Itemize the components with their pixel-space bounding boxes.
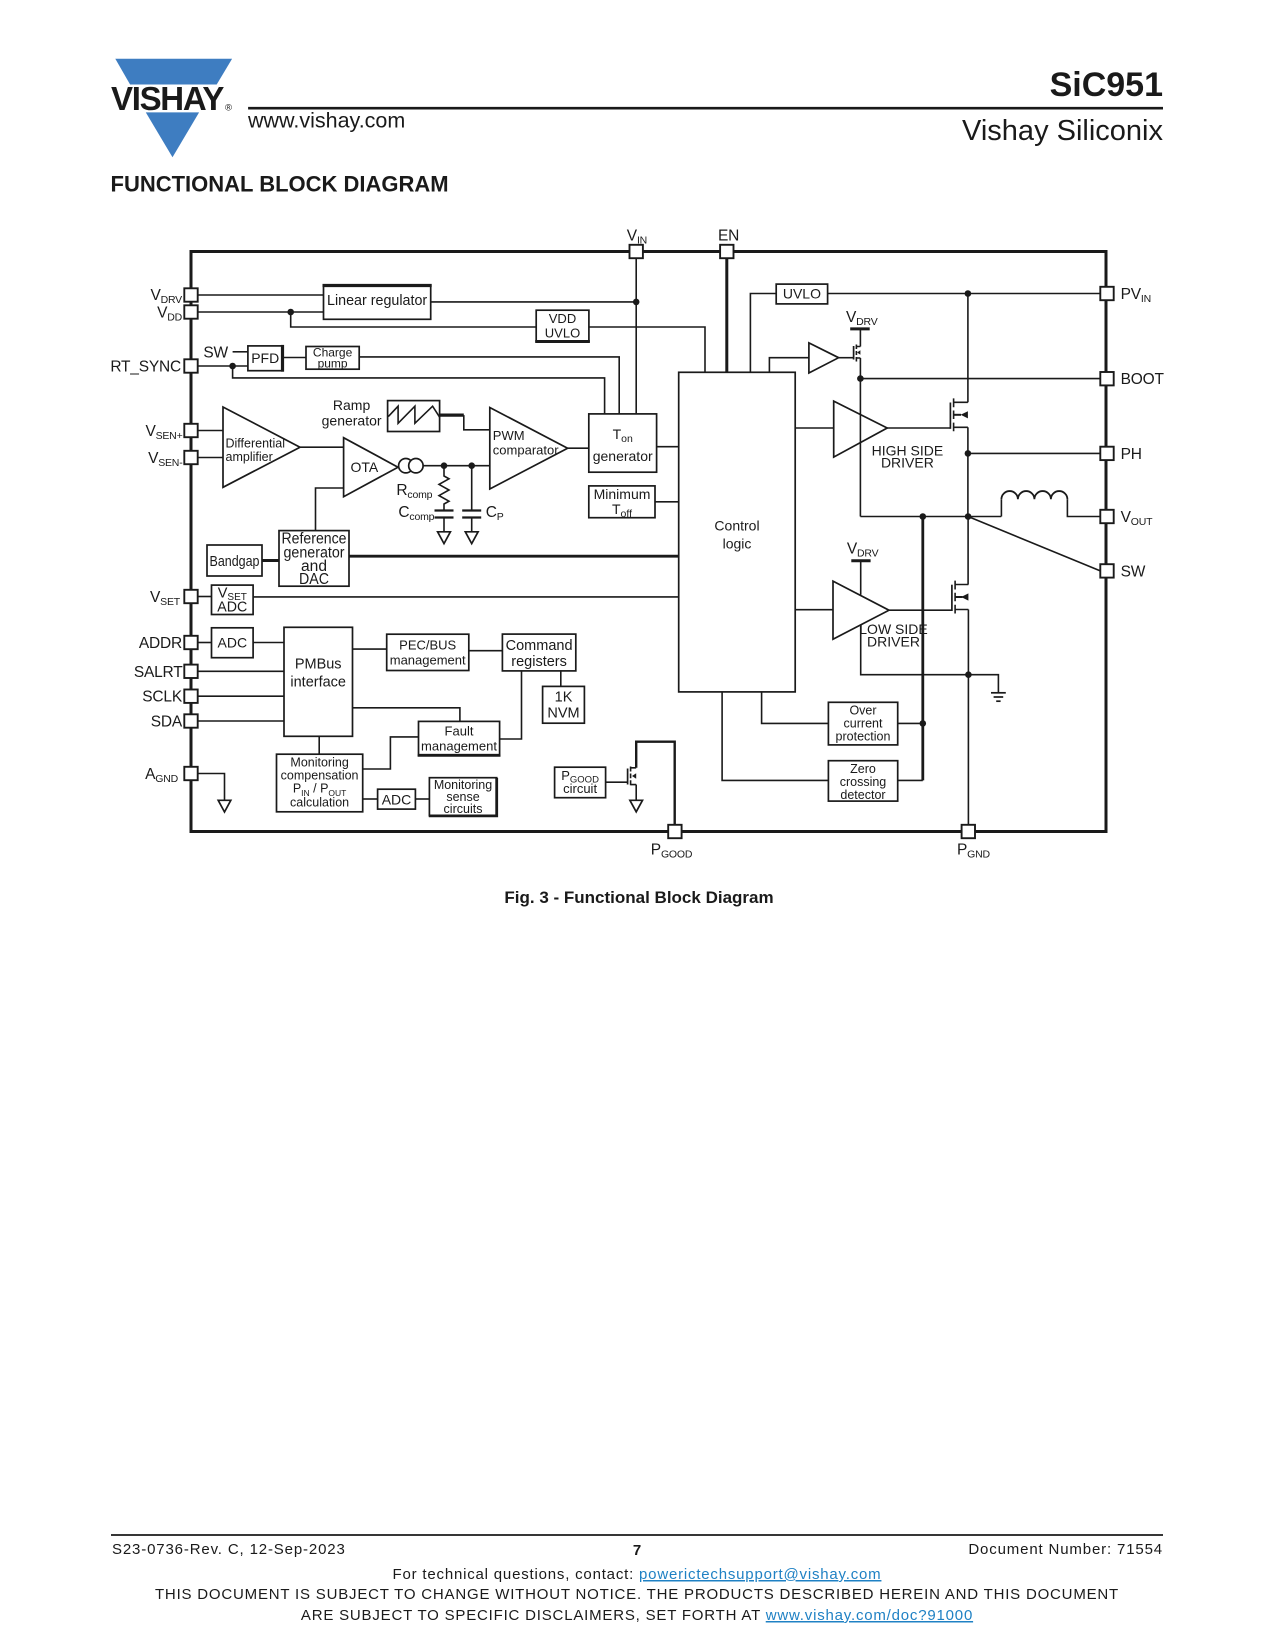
transistor Q1 high side MOSFET bbox=[950, 398, 968, 431]
svg-text:VOUT: VOUT bbox=[1121, 509, 1153, 528]
block: Command registers bbox=[502, 634, 575, 671]
wire: ADDR pin to ADC bbox=[198, 642, 212, 644]
block: UVLO bbox=[776, 284, 827, 304]
capacitor Ccomp bbox=[435, 511, 454, 532]
block: ramp generator sawtooth bbox=[388, 401, 440, 432]
wire: VDRV pin to linear regulator bbox=[198, 294, 324, 296]
svg-text:Over: Over bbox=[849, 704, 876, 718]
ground Cp bbox=[465, 532, 478, 544]
wire: ground node down to PGND pin bbox=[967, 675, 969, 825]
block: Linear regulator bbox=[323, 286, 432, 320]
comparator: PWM comparator bbox=[490, 408, 568, 490]
pin VSEN- bbox=[148, 450, 198, 469]
wire: VSET pin to VSET ADC bbox=[198, 596, 212, 598]
wire: reference to OTA second input bbox=[316, 488, 344, 531]
wire: bandgap to reference generator bbox=[262, 559, 279, 562]
svg-text:VDRV: VDRV bbox=[150, 287, 182, 306]
wire: command registers to 1K NVM bbox=[560, 671, 562, 687]
wire: BOOT node down through high side driver bbox=[859, 379, 861, 517]
pin VSEN- wire bbox=[198, 457, 223, 459]
block: VSET ADC bbox=[212, 585, 254, 615]
svg-text:Fault: Fault bbox=[445, 724, 474, 739]
svg-text:interface: interface bbox=[290, 675, 346, 691]
wire: PMBus to PEC/BUS management bbox=[353, 648, 387, 650]
svg-text:current: current bbox=[844, 717, 883, 731]
pin ADDR bbox=[139, 635, 198, 652]
pin VIN bbox=[627, 228, 647, 259]
svg-text:PWM: PWM bbox=[493, 428, 525, 443]
power rail VDRV (high side) bbox=[846, 309, 878, 329]
pin PGND bbox=[957, 825, 990, 861]
svg-text:calculation: calculation bbox=[290, 796, 349, 810]
wire: low side driver to Q2 gate bbox=[889, 609, 952, 611]
svg-text:logic: logic bbox=[723, 536, 752, 552]
wire: VDD UVLO output to control logic top bbox=[589, 327, 705, 372]
section title bbox=[111, 172, 449, 197]
block: Reference generator and DAC bbox=[279, 531, 349, 589]
wire: VOUT node down to Q2 drain bbox=[967, 517, 969, 585]
block: Charge pump bbox=[306, 345, 359, 370]
wire: control logic to zero crossing detector bbox=[722, 692, 828, 781]
block: Monitoring compensation PIN/POUT calculation bbox=[277, 754, 363, 812]
wire: UVLO to control logic top bbox=[750, 294, 776, 373]
wire: Q1 source to PH node bbox=[967, 427, 969, 453]
block: Zero crossing detector bbox=[828, 761, 897, 802]
junction on sense line bbox=[920, 720, 927, 727]
footer contact line bbox=[393, 1566, 882, 1583]
svg-text:VIN: VIN bbox=[627, 228, 647, 247]
svg-text:compensation: compensation bbox=[281, 769, 359, 783]
svg-text:SALRT: SALRT bbox=[134, 664, 183, 681]
wire: SCLK pin to PMBus interface bbox=[198, 695, 284, 697]
svg-text:UVLO: UVLO bbox=[545, 326, 580, 341]
svg-text:www.vishay.com: www.vishay.com bbox=[247, 109, 405, 133]
op-amp: OTA error amplifier bbox=[344, 438, 398, 497]
svg-text:AGND: AGND bbox=[145, 766, 178, 785]
wire: VDRV rail to Q3 drain bbox=[859, 329, 861, 347]
block: Ton generator bbox=[589, 414, 657, 472]
footer document number bbox=[968, 1541, 1163, 1558]
wire: control logic to high side driver bbox=[795, 427, 834, 429]
footer page number bbox=[633, 1542, 641, 1559]
power rail VDRV (low side) bbox=[847, 541, 879, 561]
wire: BOOT node to BOOT pin bbox=[860, 378, 1100, 380]
svg-text:Document Number: 71554: Document Number: 71554 bbox=[968, 1541, 1163, 1558]
wire: UVLO to PVIN pin bbox=[828, 293, 1101, 295]
svg-text:VDRV: VDRV bbox=[847, 541, 879, 560]
svg-text:Ccomp: Ccomp bbox=[398, 504, 434, 523]
wire: ramp to PWM comparator (bold) bbox=[440, 414, 464, 417]
block: Control logic bbox=[679, 372, 796, 692]
pin VSET bbox=[150, 589, 198, 608]
wire: driver rail row to VOUT node bbox=[860, 516, 1001, 518]
svg-text:PMBus: PMBus bbox=[295, 657, 342, 673]
wire: PVIN node down to Q1 drain bbox=[967, 294, 969, 403]
footer disclaimer line 1 bbox=[155, 1586, 1119, 1603]
wire: Minimum Toff to control logic bbox=[655, 501, 679, 503]
figure caption bbox=[504, 888, 773, 907]
svg-text:management: management bbox=[421, 739, 497, 754]
svg-text:comparator: comparator bbox=[493, 443, 559, 458]
wire: PH node to PH pin bbox=[968, 452, 1100, 454]
wire: RT_SYNC bypass to Ton generator bbox=[233, 366, 605, 414]
svg-text:detector: detector bbox=[840, 788, 885, 802]
svg-text:VISHAY: VISHAY bbox=[111, 80, 224, 117]
svg-text:SDA: SDA bbox=[151, 714, 183, 731]
ground AGND bbox=[218, 800, 231, 812]
wire: VDRV rail into low side driver bbox=[860, 561, 862, 595]
block: VDD UVLO bbox=[535, 310, 590, 341]
svg-text:VSET: VSET bbox=[150, 589, 181, 608]
wire: DAC bus to control logic (bold) bbox=[349, 555, 679, 558]
IC boundary bbox=[191, 252, 1106, 832]
svg-text:amplifier: amplifier bbox=[226, 450, 273, 464]
svg-text:Control: Control bbox=[714, 518, 759, 534]
svg-text:PEC/BUS: PEC/BUS bbox=[399, 638, 456, 653]
block: PFD bbox=[248, 345, 283, 372]
transistor Q3 bootstrap switch bbox=[854, 345, 861, 362]
svg-text:VSEN-: VSEN- bbox=[148, 450, 183, 469]
wire: command registers to fault management bbox=[500, 671, 522, 739]
svg-text:Differential: Differential bbox=[226, 436, 286, 450]
pin SW bbox=[1100, 563, 1145, 580]
svg-text:SW: SW bbox=[203, 345, 228, 362]
svg-text:DAC: DAC bbox=[299, 571, 329, 588]
wire: SDA pin to PMBus interface bbox=[198, 720, 284, 722]
wire: PGOOD circuit to PGOOD transistor gate bbox=[606, 781, 628, 783]
block: Minimum Toff bbox=[589, 486, 655, 520]
svg-text:CP: CP bbox=[486, 504, 504, 523]
svg-text:EN: EN bbox=[718, 228, 739, 245]
wire: OTA output to PWM comparator bbox=[423, 465, 490, 467]
footer disclaimer line 2 bbox=[301, 1607, 973, 1624]
pin VOUT bbox=[1100, 509, 1153, 528]
wire: PGOOD source to ground bbox=[635, 785, 637, 801]
wire: diff amp output to OTA bbox=[300, 446, 344, 448]
wire: EN vertical (bold) from pin to control logic bbox=[725, 258, 728, 372]
svg-text:NVM: NVM bbox=[547, 706, 579, 722]
footer rule bbox=[111, 1534, 1163, 1536]
svg-text:Fig. 3 - Functional Block Diag: Fig. 3 - Functional Block Diagram bbox=[504, 888, 773, 907]
svg-text:generator: generator bbox=[322, 413, 382, 429]
svg-text:DRIVER: DRIVER bbox=[867, 634, 920, 650]
svg-text:pump: pump bbox=[318, 357, 348, 371]
svg-text:PFD: PFD bbox=[251, 350, 279, 366]
node label SW input bbox=[203, 345, 247, 362]
svg-text:ADC: ADC bbox=[217, 599, 247, 615]
pin BOOT bbox=[1100, 371, 1164, 388]
svg-text:7: 7 bbox=[633, 1542, 641, 1559]
Vishay Siliconix subtitle bbox=[962, 115, 1163, 147]
wire: VSET ADC to control logic bbox=[253, 596, 679, 598]
block: PMBus interface bbox=[284, 627, 353, 736]
junction compensation node 2 bbox=[468, 462, 475, 469]
svg-text:DRIVER: DRIVER bbox=[881, 455, 934, 471]
label Ccomp bbox=[398, 504, 434, 523]
wire: ADC to monitoring sense circuits bbox=[415, 798, 429, 800]
block: Over current protection bbox=[828, 702, 897, 745]
label Cp bbox=[486, 504, 504, 523]
transistor Q2 low side MOSFET bbox=[952, 581, 969, 614]
svg-text:registers: registers bbox=[511, 654, 567, 670]
wire: PMBus to fault management bbox=[353, 708, 460, 722]
wire: VOUT node diagonal to SW pin bbox=[968, 517, 1100, 571]
wire: control logic to over current protection bbox=[762, 692, 829, 724]
wire: control logic to bootstrap buffer bbox=[769, 358, 809, 373]
resistor Rcomp bbox=[439, 466, 449, 511]
block: Bandgap bbox=[207, 545, 262, 576]
pin SDA bbox=[151, 714, 198, 731]
wire: PWM comparator to Ton generator bbox=[568, 447, 589, 449]
pin PH bbox=[1100, 446, 1141, 463]
svg-text:generator: generator bbox=[593, 448, 653, 464]
wire: buffer to Q3 gate bbox=[839, 357, 854, 359]
svg-text:BOOT: BOOT bbox=[1121, 371, 1165, 388]
svg-text:VDRV: VDRV bbox=[846, 309, 878, 328]
svg-text:Bandgap: Bandgap bbox=[210, 553, 260, 570]
svg-text:SW: SW bbox=[1121, 563, 1146, 580]
wire: low side driver return to ground bbox=[861, 625, 999, 693]
svg-text:protection: protection bbox=[836, 730, 891, 744]
block: ADC (address) bbox=[212, 628, 254, 658]
svg-text:management: management bbox=[390, 653, 466, 668]
svg-text:1K: 1K bbox=[555, 690, 573, 706]
wire: monitoring compensation to ADC bbox=[363, 798, 378, 800]
svg-text:Zero: Zero bbox=[850, 762, 876, 776]
part number SiC951 bbox=[1050, 66, 1163, 104]
svg-text:Ramp: Ramp bbox=[333, 397, 371, 413]
svg-text:circuit: circuit bbox=[563, 781, 597, 796]
capacitor Cp bbox=[462, 466, 481, 532]
block: PGOOD circuit bbox=[555, 767, 606, 798]
pin VSEN+ wire bbox=[198, 430, 223, 432]
pin SCLK bbox=[142, 689, 197, 706]
svg-text:SiC951: SiC951 bbox=[1050, 66, 1163, 104]
svg-text:PGOOD: PGOOD bbox=[651, 842, 693, 861]
svg-text:PGND: PGND bbox=[957, 842, 990, 861]
svg-text:®: ® bbox=[225, 103, 232, 114]
junction VOUT node bbox=[965, 513, 972, 520]
wire: high side driver to Q1 gate bbox=[887, 427, 950, 429]
svg-text:OTA: OTA bbox=[351, 459, 379, 475]
svg-text:FUNCTIONAL BLOCK DIAGRAM: FUNCTIONAL BLOCK DIAGRAM bbox=[111, 172, 449, 197]
svg-text:S23-0736-Rev. C, 12-Sep-2023: S23-0736-Rev. C, 12-Sep-2023 bbox=[112, 1541, 346, 1558]
svg-text:VDD: VDD bbox=[157, 305, 183, 324]
ground earth symbol bbox=[991, 693, 1006, 701]
svg-text:Linear regulator: Linear regulator bbox=[327, 293, 427, 309]
wire: VDD branch to VDD UVLO bbox=[291, 312, 537, 327]
svg-text:SCLK: SCLK bbox=[142, 689, 183, 706]
junction PVIN node bbox=[965, 290, 972, 297]
wire: PH node down to VOUT node bbox=[967, 453, 969, 516]
pin RT_SYNC bbox=[110, 359, 197, 376]
ground PGOOD transistor bbox=[630, 800, 643, 812]
wire: VIN vertical from pin to Ton generator bbox=[635, 258, 637, 414]
header rule bbox=[248, 107, 1163, 110]
Vishay logo trapezoid bbox=[115, 59, 232, 85]
junction ground node bbox=[965, 671, 972, 678]
pin VDRV bbox=[150, 287, 197, 306]
svg-text:ARE SUBJECT TO SPECIFIC DISCLA: ARE SUBJECT TO SPECIFIC DISCLAIMERS, SET… bbox=[301, 1607, 973, 1624]
pin SALRT bbox=[134, 664, 198, 681]
wire: over current protection to sense line bbox=[898, 722, 923, 724]
svg-text:For technical questions, conta: For technical questions, contact: poweri… bbox=[393, 1566, 882, 1583]
pin VSEN+ bbox=[145, 423, 197, 442]
wire: sense line down to zero crossing detector (bold) bbox=[921, 517, 924, 781]
label Ramp generator bbox=[322, 397, 382, 429]
svg-text:ADDR: ADDR bbox=[139, 635, 182, 652]
amplifier HIGH SIDE DRIVER bbox=[834, 401, 943, 470]
pin AGND bbox=[145, 766, 198, 785]
svg-text:UVLO: UVLO bbox=[783, 286, 821, 302]
wire: charge pump output to Ton generator bbox=[359, 357, 619, 414]
footer revision bbox=[112, 1541, 346, 1558]
svg-text:Vishay Siliconix: Vishay Siliconix bbox=[962, 115, 1163, 147]
wire: AGND pin to ground bbox=[198, 774, 225, 801]
junction VDD split bbox=[287, 309, 294, 316]
junction on VIN line bbox=[633, 299, 640, 306]
svg-text:Command: Command bbox=[506, 638, 573, 654]
wire: SALRT pin to PMBus interface bbox=[198, 670, 284, 672]
amplifier LOW SIDE DRIVER bbox=[833, 581, 928, 649]
wire: VDD pin to linear regulator bbox=[198, 311, 324, 313]
label Rcomp bbox=[396, 482, 432, 501]
svg-text:VSEN+: VSEN+ bbox=[145, 423, 182, 442]
pin PVIN bbox=[1100, 286, 1151, 305]
svg-text:circuits: circuits bbox=[444, 802, 483, 816]
wire: fault management to monitoring compensation bbox=[363, 737, 419, 769]
wire: Q2 source to ground node bbox=[967, 610, 969, 675]
wire: RT_SYNC pin to PFD bbox=[198, 365, 248, 367]
junction RT_SYNC split bbox=[229, 363, 236, 370]
pin PGOOD bbox=[651, 825, 693, 861]
junction BOOT node bbox=[857, 375, 864, 382]
svg-text:VDD: VDD bbox=[549, 311, 576, 326]
svg-text:ADC: ADC bbox=[218, 635, 248, 651]
block: ADC (monitoring) bbox=[378, 789, 416, 809]
svg-text:THIS DOCUMENT IS SUBJECT TO CH: THIS DOCUMENT IS SUBJECT TO CHANGE WITHO… bbox=[155, 1586, 1119, 1603]
pin EN bbox=[718, 228, 739, 259]
junction compensation node 1 bbox=[441, 462, 448, 469]
svg-text:Monitoring: Monitoring bbox=[290, 756, 348, 770]
ground Ccomp bbox=[438, 532, 451, 544]
buffer bootstrap driver bbox=[809, 343, 839, 373]
svg-text:PVIN: PVIN bbox=[1121, 286, 1151, 305]
wire: linear regulator output to VIN line bbox=[431, 301, 637, 303]
www.vishay.com link bbox=[247, 109, 405, 133]
wire: zero crossing detector to sense line bbox=[898, 779, 923, 781]
block: 1K NVM bbox=[543, 686, 585, 723]
wire: ADC to PMBus interface bbox=[253, 642, 284, 644]
svg-text:ADC: ADC bbox=[382, 792, 412, 808]
wire: PGOOD drain to PGOOD pin (bold) bbox=[636, 742, 675, 825]
Vishay logo triangle bbox=[146, 112, 199, 157]
wire: control logic to low side driver bbox=[795, 609, 833, 611]
block: PEC/BUS management bbox=[387, 634, 469, 670]
pin VDD bbox=[157, 305, 198, 324]
wire: ramp corner into PWM comparator bbox=[464, 415, 490, 430]
wire: PEC/BUS to command registers bbox=[469, 650, 503, 652]
svg-text:PH: PH bbox=[1121, 446, 1142, 463]
op-amp: Differential amplifier bbox=[223, 407, 300, 487]
wire: Q3 source to BOOT node bbox=[859, 358, 861, 379]
wire: PMBus to monitoring compensation bbox=[318, 736, 320, 754]
wire: Ton generator to control logic bbox=[657, 446, 679, 448]
svg-text:Minimum: Minimum bbox=[594, 486, 651, 502]
wire: PFD to charge pump bbox=[283, 357, 307, 359]
transistor Q4 PGOOD open-drain bbox=[628, 767, 637, 786]
block: Fault management bbox=[418, 721, 501, 755]
svg-text:RT_SYNC: RT_SYNC bbox=[110, 359, 181, 376]
block: Monitoring sense circuits bbox=[429, 778, 497, 816]
junction PH node bbox=[965, 450, 972, 457]
OTA output current-mirror circles bbox=[399, 459, 424, 473]
svg-text:crossing: crossing bbox=[840, 775, 887, 789]
Vishay logo wordmark bbox=[111, 80, 232, 117]
inductor L1 bbox=[1001, 491, 1100, 516]
svg-text:Rcomp: Rcomp bbox=[396, 482, 432, 501]
junction sense node on VOUT row bbox=[920, 513, 927, 520]
